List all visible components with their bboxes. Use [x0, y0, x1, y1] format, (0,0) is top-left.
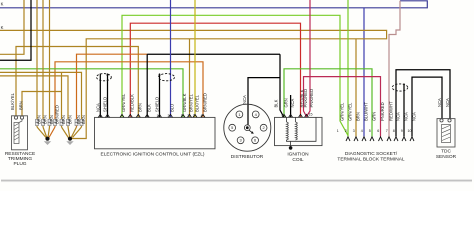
svg-text:GRN: GRN: [284, 98, 289, 107]
svg-text:GRN: GRN: [372, 112, 377, 121]
svg-text:SENSOR: SENSOR: [436, 154, 457, 160]
svg-text:7: 7: [386, 129, 388, 133]
svg-text:BRN/RED: BRN/RED: [55, 105, 60, 124]
svg-text:K: K: [1, 1, 4, 6]
svg-text:10: 10: [408, 129, 412, 133]
svg-text:BRN: BRN: [68, 115, 73, 124]
svg-text:5: 5: [369, 129, 371, 133]
svg-text:BRN: BRN: [138, 103, 143, 112]
svg-text:NCA: NCA: [96, 103, 101, 112]
svg-text:PNK/RED: PNK/RED: [380, 102, 385, 121]
svg-text:PNK/RED: PNK/RED: [309, 89, 314, 108]
svg-text:GRN/YEL: GRN/YEL: [348, 102, 353, 121]
svg-text:BRN/YEL: BRN/YEL: [189, 93, 194, 112]
svg-text:3: 3: [353, 129, 355, 133]
svg-text:TDC: TDC: [441, 149, 451, 155]
svg-text:RED/WHT: RED/WHT: [389, 101, 394, 121]
svg-text:3: 3: [168, 114, 170, 118]
svg-text:ELECTRONIC IGNITION CONTROL UN: ELECTRONIC IGNITION CONTROL UNIT (EZL): [101, 152, 205, 158]
svg-text:BLU: BLU: [170, 104, 175, 112]
svg-text:PLUG: PLUG: [13, 161, 26, 167]
svg-text:BRN/RED: BRN/RED: [202, 93, 207, 112]
svg-text:COIL: COIL: [292, 157, 304, 163]
svg-text:PNK/RED: PNK/RED: [303, 89, 308, 108]
svg-text:DISTRIBUTOR: DISTRIBUTOR: [231, 154, 264, 160]
svg-text:GRN/YEL: GRN/YEL: [340, 102, 345, 121]
svg-text:2: 2: [187, 114, 189, 118]
svg-text:1: 1: [238, 112, 240, 117]
svg-text:3: 3: [240, 138, 242, 143]
svg-text:1: 1: [281, 113, 283, 117]
svg-text:NCA: NCA: [412, 112, 417, 121]
svg-text:BLK: BLK: [147, 104, 152, 112]
svg-text:1: 1: [337, 129, 339, 133]
svg-text:3: 3: [193, 114, 195, 118]
svg-text:BLK/YEL: BLK/YEL: [10, 92, 15, 110]
svg-text:6: 6: [377, 129, 379, 133]
svg-text:GRN/YEL: GRN/YEL: [121, 93, 126, 112]
svg-text:BRN: BRN: [356, 112, 361, 121]
svg-text:K: K: [1, 25, 4, 30]
svg-text:6: 6: [254, 138, 256, 143]
svg-text:BLK/YEL: BLK/YEL: [195, 94, 200, 112]
svg-text:TERMINAL BLOCK TERMINAL: TERMINAL BLOCK TERMINAL: [337, 157, 405, 163]
svg-text:4: 4: [201, 114, 203, 118]
svg-text:NCA: NCA: [290, 98, 295, 107]
svg-text:SHIELD: SHIELD: [155, 97, 160, 112]
svg-text:BRN: BRN: [49, 115, 54, 124]
svg-text:BRN: BRN: [19, 101, 24, 110]
svg-text:SHIELD: SHIELD: [103, 97, 108, 112]
svg-text:1: 1: [181, 114, 183, 118]
svg-text:IGNITION: IGNITION: [287, 152, 309, 158]
svg-text:NCA: NCA: [437, 98, 442, 107]
svg-text:RED/BLK: RED/BLK: [130, 94, 135, 112]
svg-text:BLU/WHT: BLU/WHT: [364, 102, 369, 121]
svg-text:9: 9: [401, 129, 403, 133]
svg-text:1: 1: [157, 114, 159, 118]
svg-text:GRN/BLK: GRN/BLK: [182, 93, 187, 112]
svg-text:NCA: NCA: [396, 112, 401, 121]
svg-text:15: 15: [309, 113, 313, 117]
svg-text:BRN: BRN: [61, 115, 66, 124]
svg-text:BLK: BLK: [274, 99, 279, 107]
svg-text:NCA: NCA: [445, 98, 450, 107]
svg-text:5: 5: [231, 125, 233, 130]
svg-text:8: 8: [393, 129, 395, 133]
svg-text:2: 2: [263, 125, 265, 130]
svg-text:BRN: BRN: [43, 115, 48, 124]
svg-text:DIAGNOSTIC SOCKET/: DIAGNOSTIC SOCKET/: [345, 151, 398, 157]
svg-text:4: 4: [361, 129, 363, 133]
svg-text:NCA: NCA: [404, 112, 409, 121]
svg-text:NCA: NCA: [242, 95, 247, 104]
svg-text:BRN: BRN: [81, 115, 86, 124]
svg-text:2: 2: [345, 129, 347, 133]
svg-text:BRN: BRN: [37, 115, 42, 124]
